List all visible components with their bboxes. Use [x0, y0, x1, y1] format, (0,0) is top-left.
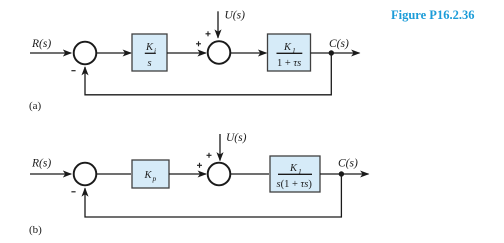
plus sign forward input S2 (b) [197, 163, 202, 168]
wire R(s) input into S1 (b) [30, 173, 71, 175]
wire block to C(s) output (b) [320, 173, 369, 175]
svg-text:K: K [283, 42, 292, 53]
svg-text:s: s [148, 58, 152, 69]
svg-text:C(s): C(s) [329, 38, 349, 50]
label C(s) (b) [338, 158, 358, 170]
summing junction S2 (b) [208, 163, 231, 186]
node junction dot (a) [329, 50, 334, 55]
svg-text:R(s): R(s) [31, 158, 51, 170]
wire Ki/s to S2 (a) [167, 52, 206, 54]
label (b) [29, 224, 42, 236]
plus sign U(s) input S2 (a) [206, 31, 211, 36]
svg-text:(a): (a) [29, 100, 42, 112]
svg-text:Figure P16.2.36: Figure P16.2.36 [391, 8, 474, 22]
node junction dot (b) [339, 171, 344, 176]
svg-text:s(1 + τs): s(1 + τs) [277, 179, 313, 190]
label C(s) (a) [329, 38, 349, 50]
plus sign forward input S2 (a) [196, 41, 201, 46]
wire R(s) input into S1 (a) [30, 52, 71, 54]
svg-text:K: K [145, 42, 154, 53]
svg-text:1 + τs: 1 + τs [277, 58, 301, 69]
summing junction S2 (a) [208, 41, 231, 64]
wire U(s) into S2 (a) [217, 11, 219, 38]
block K1/(1+ts) (a) [268, 34, 311, 71]
svg-text:U(s): U(s) [226, 132, 247, 144]
feedback wire (a) [85, 53, 331, 95]
svg-text:(b): (b) [29, 224, 42, 236]
wire S2 to block K1/(s(1+ts)) (b) [231, 173, 269, 175]
label R(s) (a) [31, 38, 51, 50]
figure caption Figure P16.2.36 [391, 8, 474, 22]
wire block to C(s) output (a) [311, 52, 360, 54]
wire S1 to block Kp (b) [97, 173, 131, 175]
plus sign U(s) input S2 (b) [207, 153, 212, 158]
svg-text:K: K [289, 163, 298, 174]
svg-text:p: p [152, 174, 157, 183]
label (a) [29, 100, 42, 112]
wire S2 to block K1/(1+ts) (a) [231, 52, 266, 54]
minus sign at S1 (a) [71, 70, 75, 72]
summing junction S1 (b) [74, 163, 97, 186]
wire Kp to S2 (b) [169, 173, 206, 175]
svg-text:U(s): U(s) [225, 10, 246, 22]
wire U(s) into S2 (b) [219, 134, 221, 161]
block Kp (b) [132, 160, 169, 188]
label U(s) (b) [226, 132, 247, 144]
svg-text:C(s): C(s) [338, 158, 358, 170]
summing junction S1 (a) [74, 42, 97, 65]
feedback wire (b) [85, 174, 341, 217]
svg-text:R(s): R(s) [31, 38, 51, 50]
block Ki/s (a) [132, 34, 167, 71]
svg-text:K: K [144, 170, 153, 181]
block K1/(s(1+ts)) (b) [270, 156, 320, 192]
wire S1 to block Ki/s (a) [97, 52, 131, 54]
label R(s) (b) [31, 158, 51, 170]
label U(s) (a) [225, 10, 246, 22]
minus sign at S1 (b) [71, 191, 75, 193]
